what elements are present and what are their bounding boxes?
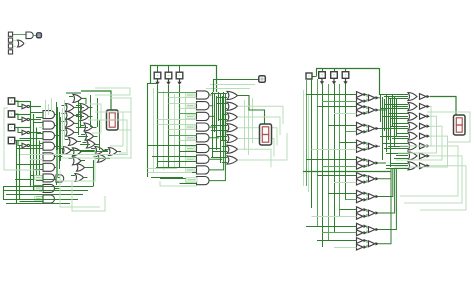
- wire loop: [88, 120, 127, 153]
- wire to MA7 in2: [169, 172, 197, 174]
- label tail: [186, 178, 197, 183]
- wire bottom 5: [6, 203, 70, 205]
- gate RB8: [369, 227, 380, 233]
- wire mid bundle: [380, 95, 382, 122]
- AND gate LA1: [43, 121, 55, 129]
- wire MO2 out: [238, 117, 281, 135]
- gate RT0b: [357, 98, 368, 104]
- OR gate MO3: [227, 124, 238, 132]
- wire or link 3: [76, 127, 88, 129]
- wire RB6 up: [379, 168, 393, 197]
- wire bundle: [59, 112, 61, 169]
- wire to LA2 in2: [20, 138, 44, 140]
- gate RT4a: [357, 157, 368, 163]
- wire to RT9b: [334, 247, 357, 249]
- wire P2 to U2: [13, 40, 18, 42]
- wire to MA7 in1: [156, 167, 197, 169]
- wire mid bundle: [396, 99, 398, 136]
- gate RT1b: [357, 110, 368, 116]
- wire rail to B2: [179, 65, 181, 72]
- wire tail 2: [148, 172, 193, 174]
- gate RB3: [369, 143, 380, 149]
- splitter S2: [177, 79, 181, 85]
- OR gate RO2: [408, 112, 417, 120]
- wire RO7 out: [420, 166, 466, 210]
- wire bundle vert: [216, 96, 218, 150]
- wire RB9 up: [379, 168, 392, 244]
- wire or link 5: [80, 144, 90, 146]
- wire C bus 2: [317, 79, 319, 226]
- input pin B2: [176, 72, 183, 79]
- OR gate U2: [18, 40, 25, 47]
- wire left rail: [147, 83, 149, 177]
- gate RT9b: [357, 244, 368, 250]
- OR gate LO13: [95, 147, 104, 155]
- OR gate LO0: [73, 94, 82, 102]
- OR gate LO3: [66, 111, 75, 119]
- OR gate LO7: [66, 128, 75, 136]
- wire loop: [110, 98, 131, 130]
- wire N1 east: [30, 119, 42, 121]
- AND gate MA7: [197, 166, 209, 174]
- splitter RS2: [343, 79, 347, 85]
- wire or link 2: [76, 116, 84, 118]
- wire to RT5a: [317, 175, 357, 177]
- wire top: [66, 92, 81, 94]
- gate RB5: [369, 176, 380, 182]
- wire bus v2: [19, 146, 21, 200]
- wire bundle: [60, 117, 62, 161]
- wire RT3a out: [366, 143, 368, 145]
- label L0: [186, 93, 196, 97]
- AND gate MA3: [197, 123, 209, 131]
- wire LO3 out: [74, 115, 78, 117]
- wire or link 8: [95, 158, 104, 160]
- wire mid bundle: [388, 97, 390, 140]
- wire to LA7 in2: [39, 191, 43, 193]
- wire loop: [90, 104, 101, 133]
- wire LO6 in1: [80, 125, 84, 127]
- wire bottom 2: [3, 190, 88, 192]
- wire LO15 in1: [69, 158, 73, 160]
- gate ROB1: [420, 104, 431, 110]
- gate RT6b: [357, 197, 368, 203]
- wire bundle to RO5 in2: [388, 146, 408, 148]
- wire MA8 to bundle: [209, 106, 225, 180]
- wire bundle to MO1 in1: [216, 103, 227, 105]
- wire RT4b out: [366, 164, 368, 166]
- OR gate MO0: [227, 91, 238, 99]
- wire or-field v2: [80, 104, 82, 128]
- wire LO0 in1: [69, 96, 73, 98]
- wire bottom vert: [93, 160, 95, 187]
- wire U1 to O1: [33, 35, 36, 37]
- wire light bottom 2: [72, 182, 105, 211]
- wire RT4a out: [366, 160, 368, 162]
- wire RT3b out: [366, 147, 368, 149]
- OR gate LO5: [66, 119, 75, 127]
- wire LO7 in1: [62, 130, 66, 132]
- wire LO15 out: [81, 160, 85, 162]
- OR gate LO18: [77, 164, 85, 171]
- OR gate MO6: [227, 156, 238, 164]
- wire or out A: [82, 98, 87, 104]
- wire to LA1 in2: [39, 127, 43, 129]
- label: [35, 197, 43, 201]
- wire RT0b out: [366, 99, 368, 101]
- AND gate MA4: [197, 134, 209, 142]
- wire to LA8 in2: [20, 201, 44, 203]
- gate RB0: [369, 95, 380, 101]
- wire LO10 in1: [83, 142, 87, 144]
- wire LO6 out: [93, 127, 97, 129]
- wire to display: [81, 91, 111, 110]
- AND gate MA0: [197, 91, 209, 99]
- gate RT3b: [357, 147, 368, 153]
- wire to LA1 in1: [33, 122, 43, 124]
- wire LO5 out: [74, 123, 78, 125]
- gate ROB4: [420, 133, 431, 139]
- wire top rail: [150, 65, 216, 67]
- wire MO3 out: [238, 128, 278, 146]
- wire to LA9: [15, 179, 56, 181]
- wire or link 7: [84, 151, 108, 153]
- wire A3 to N3: [15, 141, 22, 146]
- wire A0 east: [15, 101, 30, 103]
- wire RT2b out: [366, 130, 368, 132]
- wire to RT6b: [346, 199, 357, 201]
- wire bundle: [62, 122, 64, 153]
- AND gate LA8: [43, 195, 55, 203]
- wire rail to C1: [322, 68, 324, 72]
- OR gate LO8: [85, 132, 94, 140]
- wire RT8b out: [366, 231, 368, 233]
- wire B2 down: [179, 85, 181, 168]
- AND gate LA3: [43, 142, 55, 150]
- wire tail 1: [148, 168, 178, 170]
- wire RO6 out: [404, 156, 462, 203]
- wire LO1 in1: [62, 105, 66, 107]
- wire RB5 up: [379, 168, 392, 179]
- wire output drop: [213, 79, 215, 92]
- wire bundle to RO4 in3: [392, 138, 408, 140]
- wire RT7a out: [366, 210, 368, 212]
- gate RT7a: [357, 207, 368, 213]
- wire bus v4: [33, 114, 35, 190]
- wire N3 east: [30, 145, 42, 147]
- wire to RT3a: [340, 142, 357, 144]
- wire C bus 4: [328, 84, 330, 240]
- gate RB4: [369, 160, 380, 166]
- wire LA3 out: [55, 146, 61, 148]
- wire or link 4: [78, 136, 88, 138]
- gate RB6: [369, 194, 380, 200]
- wire rail to B0: [157, 65, 159, 72]
- wire light bottom: [60, 170, 100, 207]
- wire light vert M: [252, 98, 254, 143]
- gate RT1a: [357, 104, 368, 110]
- wire RB4 to bundle: [379, 162, 387, 164]
- wire bundle to RO5 in1: [382, 143, 408, 145]
- wire bundle to RO1 in2: [392, 106, 408, 108]
- input pin C1: [319, 72, 326, 79]
- wire bundle to RO6 in3: [394, 158, 408, 160]
- wire rail link: [148, 83, 158, 85]
- wire RB8 up: [379, 168, 397, 230]
- wire light cross: [20, 154, 128, 156]
- input pin P2: [8, 38, 12, 42]
- wire MA0 to bundle: [209, 94, 211, 97]
- wire LO13 in1: [91, 148, 95, 150]
- OR gate MO2: [227, 113, 238, 121]
- wire or link 6: [74, 150, 95, 152]
- wire A0 to N0: [15, 101, 22, 107]
- wire light vert: [51, 98, 53, 112]
- wire bundle to RO6 in1: [386, 153, 408, 155]
- NOT gate N3: [22, 143, 29, 148]
- wire LA6 out: [58, 177, 60, 179]
- gate RT5a: [357, 173, 368, 179]
- wire or-field v4: [99, 120, 101, 150]
- wire C bus 1: [311, 79, 313, 208]
- OR gate LO2: [80, 104, 89, 112]
- wire mid bundle: [386, 95, 388, 152]
- gate RT7b: [357, 213, 368, 219]
- AND gate MA2: [197, 112, 209, 120]
- gate ROB0: [420, 94, 431, 100]
- wire to MA4 in2: [180, 140, 197, 142]
- wire light vert M: [248, 107, 250, 155]
- wire to MA0 in1: [158, 92, 197, 94]
- gate ROB7: [420, 163, 431, 169]
- wire bundle to RO3 in3: [382, 128, 408, 130]
- wire LO3 in1: [62, 113, 66, 115]
- wire to MA8 in2: [180, 183, 197, 185]
- wire to RT9a: [317, 240, 357, 242]
- wire to RT1b: [334, 113, 357, 115]
- wire rail drop right: [216, 65, 218, 92]
- 7-segment display DS2: [260, 124, 272, 145]
- wire to RT8b: [322, 232, 357, 234]
- OR gate LO1: [66, 104, 75, 112]
- 7-segment display DS1: [107, 110, 119, 130]
- wire bottom left vert: [3, 187, 5, 200]
- wire bundle to MO3 in2: [211, 130, 227, 132]
- wire light vert: [153, 88, 155, 172]
- wire RT1a out: [366, 107, 368, 109]
- gate RT5b: [357, 179, 368, 185]
- OR gate RO0: [408, 93, 417, 101]
- wire to RT4b: [322, 166, 357, 168]
- wire B1 down: [168, 85, 170, 168]
- OR gate RO3: [408, 122, 417, 130]
- OR gate LO17: [75, 174, 84, 182]
- wire bundle to RO0 in1: [380, 94, 408, 96]
- OR gate MO4: [227, 134, 238, 142]
- wire to RT2b: [346, 131, 357, 133]
- AND gate MA8: [197, 177, 209, 185]
- wire mid bundle: [390, 99, 392, 167]
- AND gate MA6: [197, 155, 209, 163]
- wire light vert: [174, 94, 176, 168]
- wire LO12 out: [81, 151, 85, 153]
- gate RB9: [369, 241, 380, 247]
- wire to MA1 in2: [180, 108, 197, 110]
- wire LO5 in1: [62, 121, 66, 123]
- wire LO18 out: [85, 167, 94, 169]
- wire RT2a out: [366, 125, 368, 127]
- wire P3 to U2: [13, 46, 16, 48]
- wire to LA6 in2: [36, 180, 43, 182]
- wire LO9 in1: [65, 139, 69, 141]
- input pin C2: [331, 72, 338, 79]
- wire LO0 out: [82, 98, 86, 100]
- wire bundle to RO2 in1: [388, 113, 408, 115]
- wire LO8 in1: [81, 134, 85, 136]
- AND gate LA5: [43, 163, 55, 171]
- wire LO9 out: [77, 141, 81, 143]
- wire RO1 out: [400, 106, 431, 146]
- wire LO10 out: [95, 144, 99, 146]
- wire to RT6a: [328, 193, 357, 195]
- label L5: [186, 146, 196, 150]
- wire RB1 to bundle: [379, 109, 387, 111]
- wire to MA5 in1: [148, 145, 197, 147]
- wire RT6b out: [366, 198, 368, 200]
- wire MO1 out: [238, 106, 284, 124]
- wire to output pin: [213, 79, 259, 81]
- wire light vert: [163, 91, 165, 170]
- wire to MA0 in2: [169, 97, 197, 99]
- label L3: [186, 125, 196, 129]
- wire RT0a out: [366, 95, 368, 97]
- wire mid bundle: [382, 97, 384, 160]
- wire to LA0 in2: [36, 117, 43, 119]
- gate RT3a: [357, 140, 368, 146]
- wire RO3 out: [396, 126, 442, 160]
- wire LO11 out: [71, 150, 75, 152]
- input pin A1: [8, 111, 14, 117]
- wire bundle vert: [220, 94, 222, 163]
- wire bundle vert: [223, 92, 225, 127]
- wire LO2 out: [89, 107, 93, 109]
- wire rail to C3: [345, 68, 347, 72]
- wire LO13 out: [104, 150, 108, 152]
- wire bottom 1: [3, 186, 93, 188]
- wire display loop: [427, 112, 470, 142]
- gate RT0a: [357, 92, 368, 98]
- wire bus v5: [36, 128, 38, 182]
- wire or-field v1: [78, 100, 80, 135]
- wire bundle to RO2 in2: [382, 116, 408, 118]
- wire LA4 out: [55, 156, 63, 158]
- wire bundle to MO5 in2: [213, 151, 227, 153]
- wire bundle vert: [218, 92, 220, 121]
- AND gate U1: [26, 32, 33, 39]
- AND gate MA5: [197, 144, 210, 152]
- gate RT9a: [357, 238, 368, 244]
- wire or-field v3: [97, 98, 99, 127]
- wire to LA0 in1: [30, 112, 43, 114]
- input pin P3: [8, 44, 12, 48]
- OR gate MO1: [227, 102, 238, 110]
- wire RT7b out: [366, 214, 368, 216]
- AND gate LA2: [43, 132, 55, 140]
- wire rail to B1: [168, 65, 170, 72]
- wire bus v3: [30, 101, 32, 186]
- NOT gate N2: [22, 130, 29, 135]
- wire to LA3 in2: [17, 148, 44, 150]
- wire bottom 4: [3, 199, 78, 201]
- wire U2 output: [24, 43, 26, 45]
- wire mid bundle: [384, 99, 386, 131]
- gate RT8a: [357, 223, 368, 229]
- wire bundle: [57, 107, 59, 177]
- wire light vert: [64, 100, 66, 140]
- wire MO0 to display: [238, 96, 265, 125]
- wire bundle vert: [225, 94, 227, 155]
- wire MO4 out: [238, 139, 275, 157]
- gate RT4b: [357, 163, 368, 169]
- wire to RT8a: [306, 226, 357, 228]
- wire P1 to U1: [13, 34, 26, 36]
- wire light vert: [62, 108, 64, 148]
- wire bottom 3: [6, 194, 83, 196]
- wire light vert: [45, 100, 47, 118]
- wire N2 east: [30, 132, 42, 134]
- wire RT5b out: [366, 180, 368, 182]
- wire B0 down: [157, 85, 159, 168]
- wire LA1 out: [55, 125, 58, 127]
- splitter S0: [155, 79, 159, 85]
- wire bundle to RO4 in2: [380, 136, 408, 138]
- wire RO2 out: [398, 116, 437, 153]
- gate ROB2: [420, 113, 431, 119]
- wire LO16 out: [106, 158, 110, 160]
- wire light vert M: [244, 100, 246, 150]
- input pin A0: [8, 98, 14, 104]
- wire mid bundle: [392, 95, 394, 126]
- wire bundle to RO3 in2: [390, 126, 408, 128]
- wire to LA4 in2: [30, 159, 43, 161]
- gate RT8b: [357, 230, 368, 236]
- label L6: [186, 157, 196, 161]
- gate RT2a: [357, 122, 368, 128]
- wire rail stub: [316, 68, 318, 76]
- wire bundle to MO4 in2: [220, 140, 227, 142]
- wire MA5 to bundle: [209, 148, 220, 151]
- wire bundle to MO2 in2: [218, 119, 227, 121]
- wire or-field v5: [90, 95, 92, 127]
- output pin O2: [259, 76, 266, 83]
- OR gate LO12: [73, 148, 82, 156]
- wire to LA5 in1: [17, 164, 44, 166]
- wire RT9a out: [366, 241, 368, 243]
- wire A2 to N2: [15, 128, 22, 133]
- wire bundle vert: [212, 92, 214, 158]
- label L7: [186, 168, 196, 172]
- wire to RT3b: [312, 149, 357, 151]
- wire to LA5 in2: [33, 169, 43, 171]
- wire bundle to RO1 in3: [380, 108, 408, 110]
- wire to MA4 in1: [169, 135, 197, 137]
- wire MO6 out: [238, 133, 288, 160]
- AND gate LA9: [56, 175, 64, 182]
- wire to MA6 in1: [152, 156, 197, 158]
- wire RT9b out: [366, 245, 368, 247]
- wire to RT7a: [340, 209, 357, 211]
- wire to MA3 in2: [169, 129, 197, 131]
